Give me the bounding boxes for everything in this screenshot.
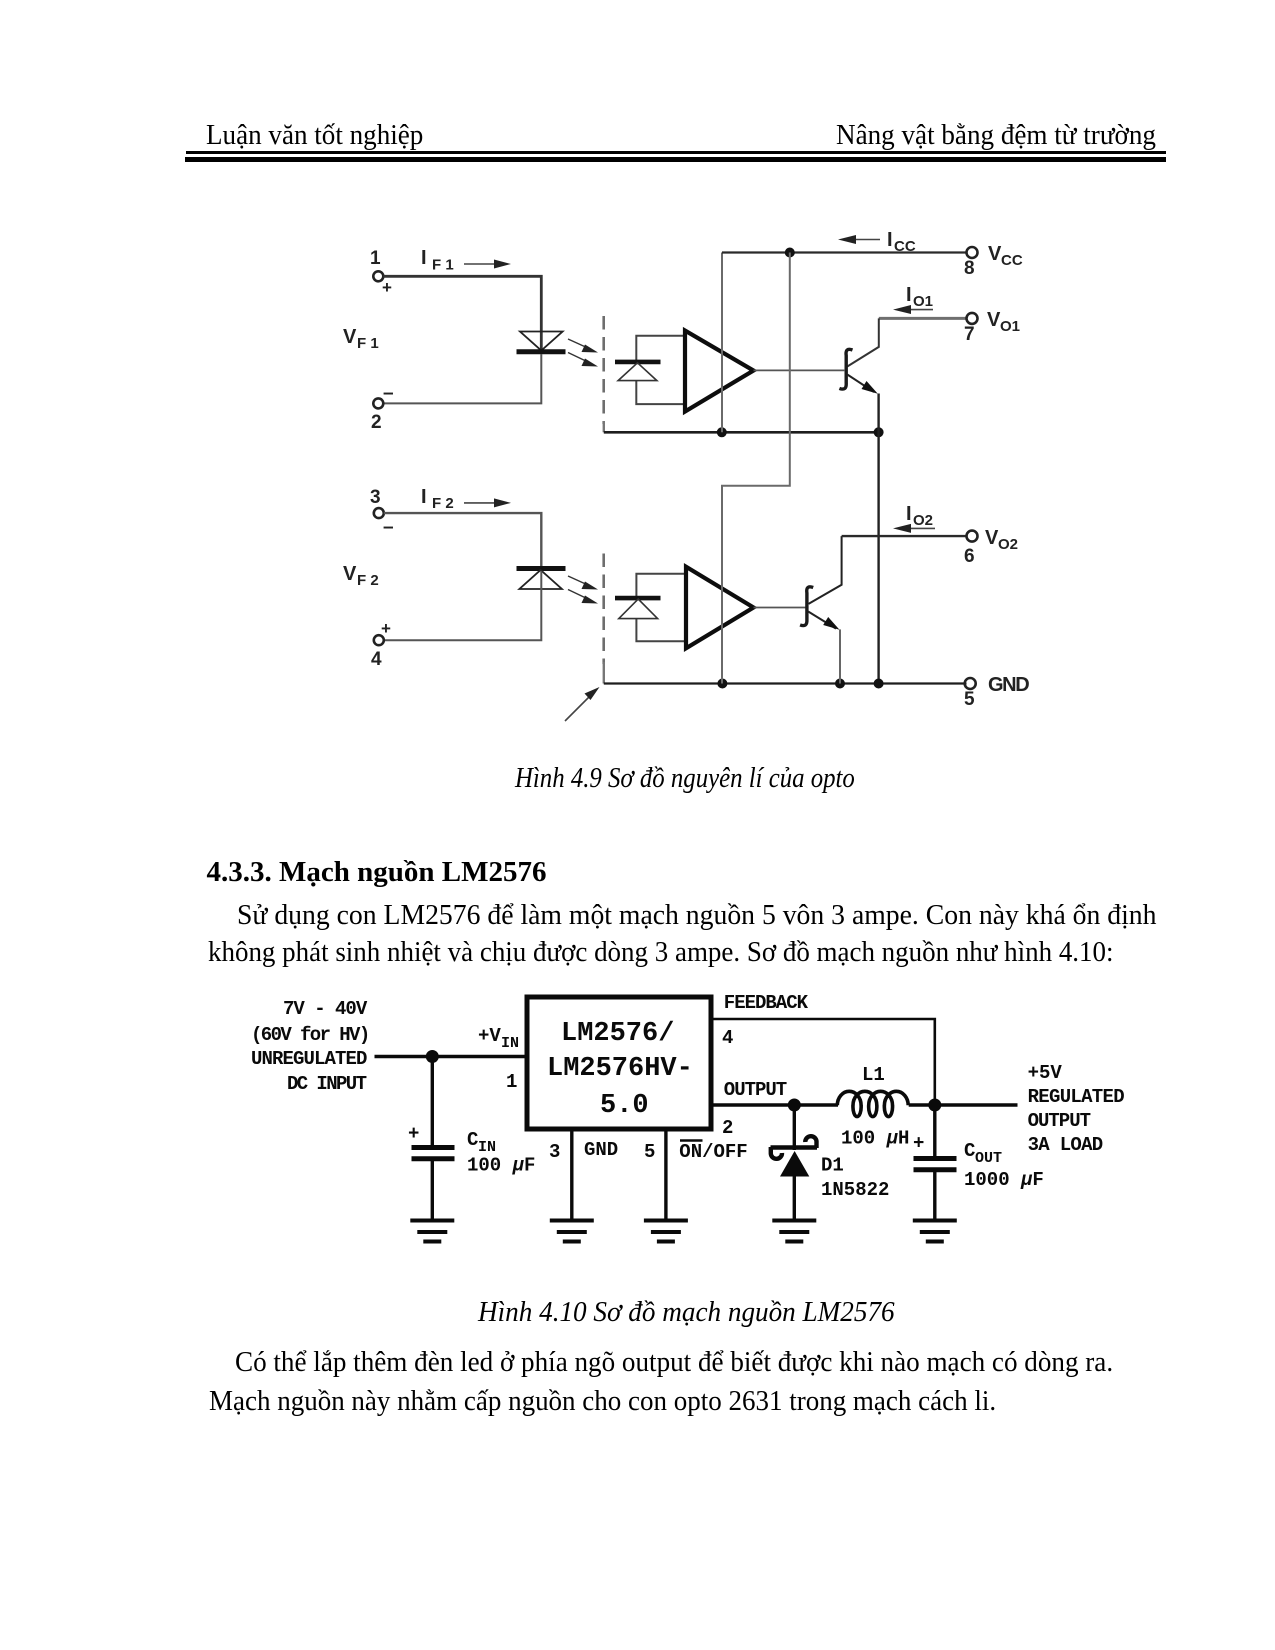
header thick rule: [185, 157, 1166, 162]
photodiode 2 loop bottom wire: [636, 619, 686, 642]
svg-text:LM2576/: LM2576/: [561, 1019, 674, 1049]
svg-text:–: –: [383, 517, 394, 538]
svg-text:V: V: [985, 527, 999, 549]
IO2 arrow: [908, 527, 935, 529]
gnd rail: [604, 682, 967, 684]
Q1 emitter vertical wire to rails: [877, 394, 879, 684]
D1 top wire: [793, 1105, 796, 1150]
ICC arrow: [853, 239, 880, 241]
amplifier U1b triangle: [686, 567, 754, 649]
pin 3 wire: [570, 1129, 573, 1219]
junction dot mid rail / amp1 ground: [717, 427, 727, 437]
pin 4 terminal: [374, 635, 384, 645]
header left: [206, 122, 431, 150]
feedback wire pin4: [711, 1019, 935, 1105]
svg-text:F 2: F 2: [432, 495, 454, 512]
svg-text:REGULATED: REGULATED: [1028, 1086, 1125, 1108]
svg-text:F 1: F 1: [357, 335, 379, 352]
isolation pointer arrow: [565, 696, 590, 721]
photodiode 1 loop top wire: [636, 336, 684, 361]
wire LED1 to pin2: [383, 354, 541, 403]
LED D1b anode triangle: [519, 570, 562, 589]
svg-text:1: 1: [506, 1071, 517, 1093]
figure 4.10 LM2576 power supply schematic: [240, 985, 1130, 1260]
svg-text:GND: GND: [988, 674, 1029, 696]
svg-text:4: 4: [722, 1027, 733, 1049]
isolation dashed line channel 2: [602, 554, 605, 665]
LED D1a anode triangle: [520, 332, 563, 351]
IF2 arrow: [464, 502, 496, 504]
svg-text:I: I: [421, 247, 427, 269]
svg-text:CC: CC: [1001, 252, 1023, 269]
photodiode 1 triangle: [618, 363, 657, 381]
transistor Q2 bar: [800, 587, 813, 626]
svg-text:O2: O2: [913, 512, 933, 529]
svg-text:I: I: [906, 503, 912, 525]
photodiode 1 loop bottom wire: [636, 381, 684, 405]
svg-text:C: C: [467, 1129, 478, 1151]
pin 5 wire: [664, 1129, 667, 1219]
svg-text:V: V: [987, 309, 1001, 331]
wire pin3 to LED2: [384, 513, 542, 566]
vcc line through amp1: [721, 253, 723, 433]
svg-text:O1: O1: [913, 293, 933, 310]
svg-text:8: 8: [964, 258, 975, 279]
svg-text:+: +: [913, 1133, 924, 1155]
junction dot output/COUT: [928, 1099, 941, 1112]
COUT bottom wire: [933, 1170, 936, 1219]
VO2 wire: [842, 535, 967, 537]
svg-text:LM2576HV-: LM2576HV-: [547, 1054, 693, 1084]
caption figure 4.9: [515, 765, 899, 793]
svg-text:5.0: 5.0: [600, 1091, 649, 1121]
svg-text:I: I: [887, 229, 893, 251]
svg-text:F 1: F 1: [432, 257, 454, 274]
ground symbol D1: [772, 1221, 816, 1242]
VCC terminal pin 8: [967, 247, 978, 258]
Q2 emitter vertical wire: [839, 629, 841, 683]
GND terminal pin 5: [965, 678, 976, 689]
D1 bottom wire: [793, 1177, 796, 1220]
svg-text:6: 6: [964, 546, 975, 567]
svg-text:V: V: [988, 243, 1002, 265]
svg-text:3: 3: [370, 487, 381, 508]
CIN bottom wire: [431, 1159, 434, 1219]
svg-text:3: 3: [549, 1141, 560, 1163]
ground symbol CIN: [410, 1221, 454, 1242]
junction dot input/CIN: [426, 1050, 439, 1063]
svg-text:1: 1: [370, 248, 381, 269]
svg-text:V: V: [343, 326, 357, 348]
section heading 4.3.3: [207, 858, 547, 887]
svg-text:5: 5: [964, 689, 975, 710]
light arrows channel 1: [568, 339, 598, 367]
IC U1 LM2576 box: [527, 997, 711, 1129]
svg-text:DC INPUT: DC INPUT: [287, 1073, 367, 1095]
amplifier U1a triangle: [685, 331, 754, 412]
transistor Q1 bar: [839, 349, 852, 389]
Q2 emitter with arrow: [808, 612, 836, 629]
caption figure 4.10: [478, 1299, 908, 1327]
svg-text:UNREGULATED: UNREGULATED: [251, 1048, 367, 1070]
svg-text:+5V: +5V: [1028, 1062, 1063, 1084]
pin 3 terminal: [374, 508, 384, 518]
output wire: [711, 1103, 838, 1106]
photodiode 1 cathode bar: [615, 360, 661, 365]
ground symbol COUT: [913, 1221, 957, 1242]
junction dot top rail: [785, 248, 795, 258]
wire pin1 to LED1: [383, 276, 541, 350]
mid rail corner: [603, 421, 605, 432]
ground symbol pin3: [550, 1221, 594, 1242]
svg-text:D1: D1: [821, 1155, 844, 1177]
svg-text:V: V: [343, 563, 357, 585]
schottky diode D1 cathode bar with hooks: [771, 1145, 818, 1149]
pin 1 terminal: [373, 271, 383, 281]
vcc feed line to amp2: [722, 253, 790, 684]
svg-text:C: C: [964, 1140, 975, 1162]
svg-text:7V - 40V: 7V - 40V: [283, 998, 368, 1020]
paragraph 1 line 2: [208, 939, 1148, 967]
svg-text:3A LOAD: 3A LOAD: [1028, 1134, 1103, 1156]
wire LED2 to pin4: [384, 571, 542, 640]
photodiode 2 loop top wire: [636, 574, 686, 598]
COUT top wire: [933, 1105, 936, 1157]
junction dot mid rail / Q1 emitter: [874, 427, 884, 437]
junction dot gnd / Q2 emitter: [835, 679, 845, 689]
junction dot output/D1: [788, 1099, 801, 1112]
LED D1b cathode bar: [517, 566, 566, 571]
junction dot gnd / amp2: [717, 679, 727, 689]
svg-text:7: 7: [964, 324, 975, 345]
capacitor CIN plates: [412, 1145, 455, 1150]
VO2 terminal pin 6: [967, 531, 978, 542]
IO1 arrow: [908, 309, 933, 311]
svg-text:L1: L1: [862, 1064, 885, 1086]
CIN top wire: [431, 1057, 434, 1147]
svg-text:1000 μF: 1000 μF: [964, 1169, 1044, 1191]
output wire right of L1: [909, 1103, 1018, 1106]
top rail VCC: [722, 251, 967, 253]
Q2 collector wire: [809, 536, 842, 604]
paragraph 2 line 1: [235, 1349, 1142, 1377]
Q1 base wire from amp1: [754, 369, 846, 371]
svg-text:+: +: [408, 1123, 419, 1145]
svg-text:O2: O2: [998, 536, 1018, 553]
svg-text:1N5822: 1N5822: [821, 1179, 889, 1201]
isolation dashed line channel 1: [602, 316, 605, 424]
svg-text:OUTPUT: OUTPUT: [724, 1079, 787, 1101]
svg-text:I: I: [906, 284, 912, 306]
gnd rail corner: [603, 662, 605, 684]
svg-text:OUT: OUT: [975, 1150, 1002, 1167]
svg-text:4: 4: [371, 649, 382, 670]
paragraph 2 line 2: [209, 1388, 1025, 1416]
capacitor COUT plates: [914, 1156, 957, 1161]
svg-text:2: 2: [722, 1117, 733, 1139]
paragraph 1 line 1: [237, 902, 1167, 930]
input wire: [375, 1055, 526, 1058]
header thin rule: [186, 151, 1167, 153]
svg-text:IN: IN: [478, 1139, 496, 1156]
svg-text:OUTPUT: OUTPUT: [1028, 1110, 1091, 1132]
IF1 arrow: [464, 263, 496, 265]
light arrows channel 2: [568, 576, 598, 604]
svg-text:IN: IN: [501, 1035, 519, 1052]
figure 4.9 opto-coupler schematic: [330, 225, 1040, 730]
svg-text:–: –: [383, 383, 394, 404]
svg-text:ON/OFF: ON/OFF: [679, 1141, 747, 1163]
svg-text:O1: O1: [1000, 318, 1020, 335]
svg-text:100 μF: 100 μF: [467, 1155, 535, 1177]
photodiode 2 cathode bar: [615, 596, 661, 601]
header right: [836, 122, 1167, 150]
svg-text:2: 2: [371, 412, 382, 433]
ground symbol pin5: [644, 1221, 688, 1242]
svg-text:I: I: [421, 486, 427, 508]
VO1 wire: [879, 317, 967, 320]
svg-text:100 μH: 100 μH: [841, 1128, 909, 1150]
svg-text:5: 5: [644, 1141, 655, 1163]
Q2 base wire from amp2: [754, 607, 808, 609]
LED D1a cathode bar: [517, 349, 566, 354]
mid rail (common): [604, 431, 879, 434]
svg-text:+: +: [381, 619, 391, 638]
svg-text:CC: CC: [894, 238, 916, 255]
photodiode 2 triangle: [619, 599, 658, 619]
Q1 emitter with arrow: [847, 375, 874, 393]
junction dot gnd / Q1 emitter line: [874, 679, 884, 689]
VO1 terminal pin 7: [967, 313, 978, 324]
svg-text:GND: GND: [584, 1139, 618, 1161]
D1 anode triangle (filled): [780, 1151, 809, 1177]
pin 2 terminal: [373, 398, 383, 408]
Q1 collector wire: [847, 318, 879, 366]
svg-text:+: +: [382, 278, 392, 297]
svg-text:+V: +V: [478, 1025, 501, 1047]
svg-text:FEEDBACK: FEEDBACK: [724, 992, 809, 1014]
inductor L1 coil: [837, 1091, 908, 1116]
svg-text:(60V for HV): (60V for HV): [251, 1024, 369, 1046]
svg-text:F 2: F 2: [357, 572, 379, 589]
